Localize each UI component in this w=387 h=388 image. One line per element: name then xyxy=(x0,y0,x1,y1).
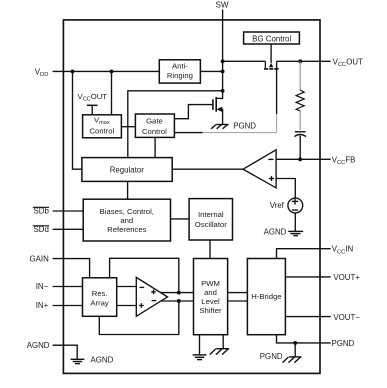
capacitor C1 divider xyxy=(294,132,306,160)
pin SDd label xyxy=(33,225,49,234)
wire res array to amp plus xyxy=(117,305,137,307)
svg-text:Gate: Gate xyxy=(146,117,163,126)
svg-text:VOUT+: VOUT+ xyxy=(333,273,360,282)
svg-text:BG Control: BG Control xyxy=(252,34,291,43)
terminal VccOUT tap xyxy=(87,105,98,115)
node SW/NMOS drain junction xyxy=(221,89,225,93)
wire feedback top xyxy=(110,258,179,292)
wire regulator to comparator xyxy=(172,168,243,170)
block Regulator xyxy=(82,158,172,182)
svg-text:Internal: Internal xyxy=(198,210,224,219)
svg-text:Oscillator: Oscillator xyxy=(195,220,227,229)
wire VccOut rail left xyxy=(223,60,266,62)
svg-text:Level: Level xyxy=(201,297,220,306)
pin SDb label xyxy=(33,207,50,216)
wire PGND stub down xyxy=(294,343,296,357)
wire PWM to H-Bridge bottom xyxy=(228,300,248,302)
ground AGND under Vref xyxy=(288,231,303,235)
node VDD rail junction xyxy=(71,69,75,73)
block Vmax Control xyxy=(83,115,122,138)
ground PGND top (chassis) xyxy=(211,125,229,129)
node VccFB junction xyxy=(298,157,302,161)
node VDD Vmax junction xyxy=(110,69,114,73)
wire VOUT- xyxy=(285,316,330,318)
wire IN+ xyxy=(53,305,83,307)
svg-text:Vref: Vref xyxy=(270,201,285,210)
ground AGND under PWM xyxy=(193,355,207,360)
wire AGND left xyxy=(53,345,78,359)
wire VOUT+ xyxy=(285,276,330,278)
wire Q1 drain to gate control (grey) xyxy=(202,114,277,133)
svg-text:AGND: AGND xyxy=(27,341,50,350)
ground PGND under PWM (chassis) xyxy=(210,349,230,355)
node PGND junction xyxy=(293,341,297,345)
wire feedback bottom xyxy=(99,301,179,335)
wire biases to oscillator xyxy=(171,218,190,220)
wire PWM ground stub right xyxy=(222,335,224,349)
op-amp U1 input amplifier xyxy=(136,277,167,316)
node divider top junction xyxy=(298,59,302,63)
ground PGND bottom (chassis) xyxy=(283,357,302,363)
wire VccOut rail right xyxy=(277,60,331,62)
wire regulator-top riser to SW node xyxy=(128,91,223,158)
svg-text:VCCIN: VCCIN xyxy=(332,245,354,256)
wire Vmax to Gate Control xyxy=(121,126,135,128)
svg-text:Regulator: Regulator xyxy=(110,165,145,174)
svg-text:IN+: IN+ xyxy=(36,301,49,310)
source Vref xyxy=(288,198,303,213)
node SW/anti-ringing junction xyxy=(221,69,225,73)
wire amp out- to PWM xyxy=(161,300,194,302)
wire PWM ground stub left xyxy=(199,335,201,355)
wire H-Bridge to PGND pin xyxy=(277,335,331,343)
transistor Q2 switch NMOS xyxy=(213,91,223,125)
node feedback bottom junction xyxy=(177,299,181,303)
chip boundary xyxy=(63,20,320,374)
wire SDb xyxy=(53,210,84,212)
wire SW vertical xyxy=(222,10,224,91)
wire Vref to AGND xyxy=(294,213,296,231)
svg-text:Biases, Control,: Biases, Control, xyxy=(100,207,154,216)
svg-text:VCCFB: VCCFB xyxy=(332,155,356,166)
wire anti-ringing to SW xyxy=(200,70,222,72)
wire amp out+ to PWM xyxy=(160,292,193,294)
svg-text:Anti-: Anti- xyxy=(172,61,188,70)
svg-text:and: and xyxy=(204,288,217,297)
wire regulator to biases xyxy=(127,181,129,199)
svg-text:GAIN: GAIN xyxy=(30,255,50,264)
svg-text:Shifter: Shifter xyxy=(199,306,222,315)
svg-text:PWM: PWM xyxy=(201,279,220,288)
block PWM and Level Shifter xyxy=(194,259,228,335)
wire SDd xyxy=(53,228,84,230)
svg-text:AGND: AGND xyxy=(91,356,114,365)
transistor Q1 rectifier PMOS xyxy=(264,44,279,114)
block Internal Oscillator xyxy=(189,199,232,240)
block H-Bridge xyxy=(247,259,285,335)
block Anti-Ringing xyxy=(159,60,200,83)
svg-text:SW: SW xyxy=(215,1,228,10)
svg-text:Ringing: Ringing xyxy=(167,71,193,80)
op-amp U2 boost comparator xyxy=(243,150,276,188)
wire comparator plus to Vref xyxy=(276,179,295,199)
block Res Array xyxy=(83,278,117,317)
block Biases Control References xyxy=(83,199,170,241)
svg-text:PGND: PGND xyxy=(260,352,283,361)
svg-text:Control: Control xyxy=(89,127,114,136)
svg-text:PGND: PGND xyxy=(233,122,256,131)
svg-text:Control: Control xyxy=(142,127,167,136)
svg-text:Res.: Res. xyxy=(92,289,108,298)
wire GAIN xyxy=(53,259,90,278)
svg-text:References: References xyxy=(107,225,146,234)
node feedback top junction xyxy=(177,291,181,295)
svg-text:IN−: IN− xyxy=(36,282,49,291)
block Gate Control xyxy=(135,114,174,137)
wire gate control to regulator xyxy=(154,137,156,157)
svg-text:VCCOUT: VCCOUT xyxy=(333,57,363,68)
svg-text:PGND: PGND xyxy=(332,339,355,348)
resistor R1 divider xyxy=(296,61,304,130)
wire oscillator to PWM xyxy=(209,240,211,259)
wire VccIN to H-Bridge xyxy=(277,249,331,259)
wire gate control to NMOS gate xyxy=(174,105,213,119)
wire VccFB xyxy=(276,158,331,160)
wire IN- xyxy=(53,286,83,288)
node SW/VccOut rail junction xyxy=(221,59,225,63)
wire PWM to H-Bridge top xyxy=(228,292,248,294)
svg-text:and: and xyxy=(120,216,133,225)
wire res array to amp minus xyxy=(117,286,137,288)
svg-text:VOUT−: VOUT− xyxy=(333,313,360,322)
wire VDD to regulator xyxy=(73,71,82,169)
block BG Control xyxy=(244,32,300,44)
svg-text:H-Bridge: H-Bridge xyxy=(251,292,281,301)
svg-text:VDD: VDD xyxy=(35,67,49,78)
ground AGND bottom left xyxy=(71,359,85,363)
svg-text:VCCOUT: VCCOUT xyxy=(78,92,108,103)
svg-text:AGND: AGND xyxy=(264,227,287,236)
wire VDD to Vmax control xyxy=(111,71,113,114)
svg-text:Array: Array xyxy=(90,298,109,307)
wire VDD xyxy=(53,70,160,72)
